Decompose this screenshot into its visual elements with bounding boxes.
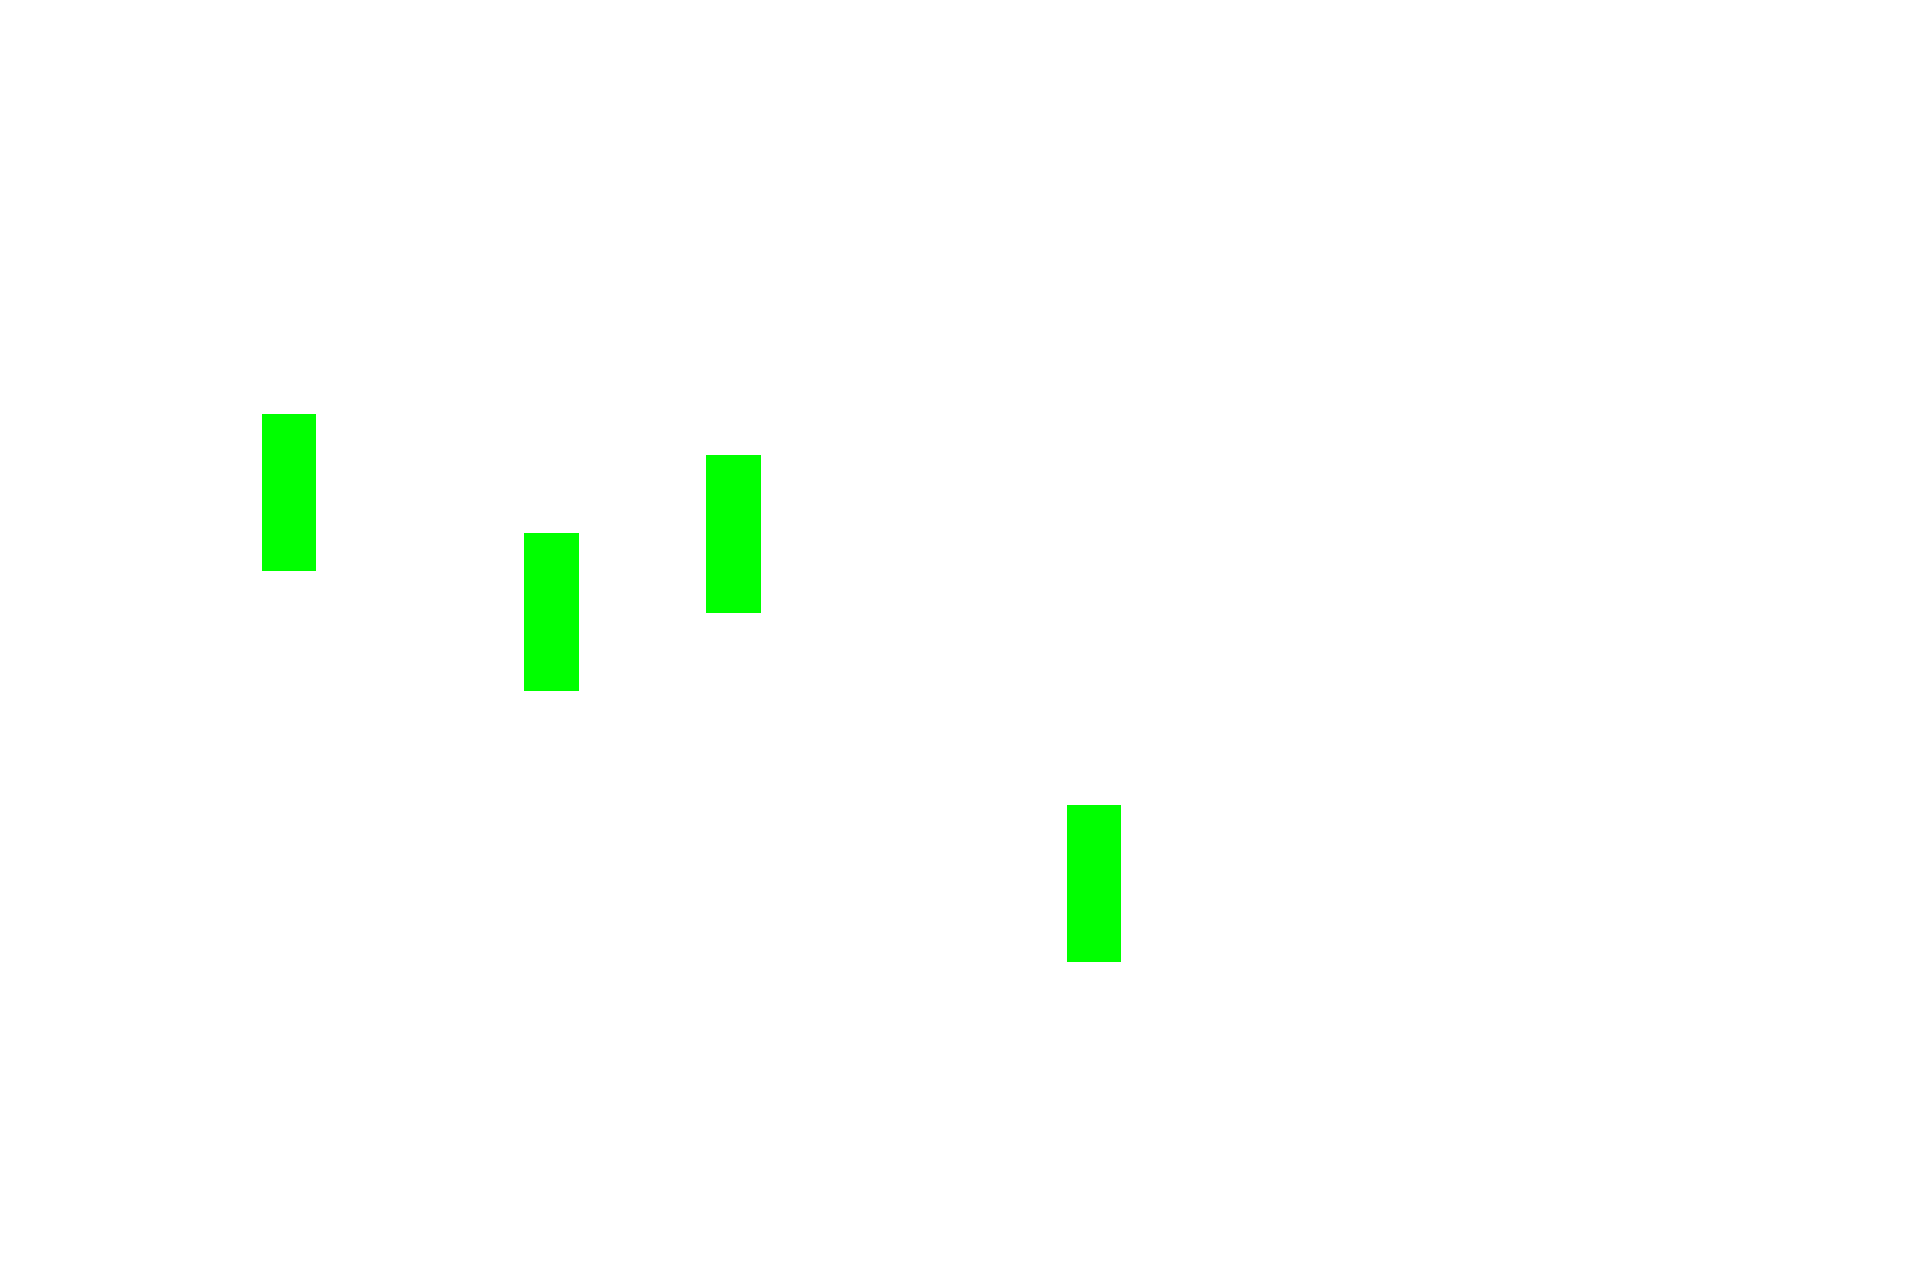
candle bar 2	[524, 533, 579, 691]
candle bar 3	[706, 455, 761, 613]
candle bar 4	[1067, 805, 1121, 962]
candle bar 1	[262, 414, 316, 571]
